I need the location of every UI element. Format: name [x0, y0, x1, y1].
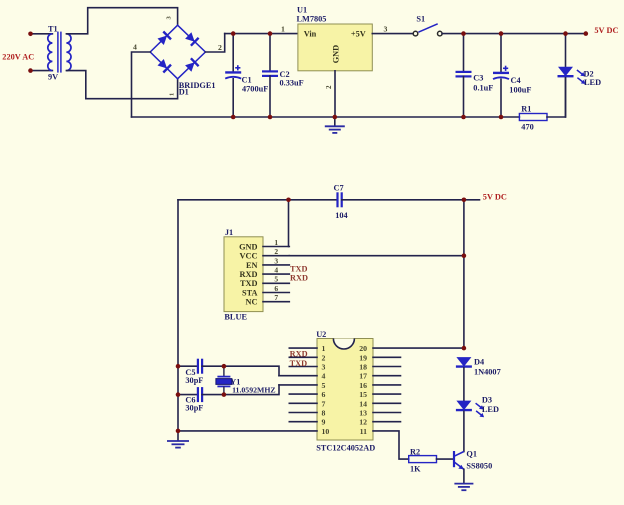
wire U2 pin 13 stub — [373, 412, 401, 414]
wire 5V vertical — [463, 200, 465, 348]
svg-text:BLUE: BLUE — [224, 312, 247, 321]
wire U2 pin 5 stub — [279, 384, 317, 386]
wire secondary top to bridge pin3 — [66, 8, 177, 34]
capacitor C3 — [456, 72, 472, 77]
wire U2 pin 2 stub — [289, 356, 317, 358]
wire left to C6 — [178, 394, 198, 396]
wire J1 pin 2 stub — [263, 255, 289, 257]
svg-text:16: 16 — [359, 381, 367, 390]
svg-text:J1: J1 — [225, 228, 233, 237]
svg-text:18: 18 — [359, 363, 367, 372]
LED D2 arrows — [577, 70, 586, 84]
svg-text:C4: C4 — [511, 76, 521, 85]
microcontroller U2 box — [317, 339, 373, 441]
wire left to C5 — [178, 365, 198, 367]
wire ground stem bottom-left — [177, 431, 179, 441]
svg-text:10: 10 — [322, 427, 330, 436]
svg-text:2: 2 — [322, 353, 326, 362]
svg-text:1: 1 — [274, 238, 278, 247]
wire C3 top stem — [463, 34, 465, 72]
wire U2 pin 11 to R2 — [373, 431, 409, 459]
svg-text:RXD: RXD — [240, 270, 258, 279]
wire 5V rail right of C7 — [342, 199, 480, 201]
svg-text:R2: R2 — [410, 447, 420, 456]
svg-text:VCC: VCC — [240, 252, 258, 261]
svg-text:19: 19 — [359, 353, 367, 362]
junction C4 bottom — [499, 115, 504, 120]
diode D4 — [456, 357, 472, 367]
svg-text:14: 14 — [359, 399, 367, 408]
LED D3 — [456, 401, 472, 411]
wire primary top lead — [31, 33, 53, 35]
wire J1 pin 1 stub — [263, 246, 289, 248]
wire bottom rail — [132, 116, 520, 118]
junction C1 top — [231, 31, 236, 36]
connector J1 box — [224, 237, 263, 312]
wire U2 pin 19 stub — [373, 356, 401, 358]
wire C2 bottom stem — [269, 76, 271, 117]
wire U2 pin 3 stub — [289, 366, 317, 368]
svg-text:NC: NC — [246, 298, 258, 307]
svg-text:GND: GND — [239, 242, 257, 251]
svg-text:6: 6 — [322, 390, 326, 399]
svg-text:4: 4 — [322, 372, 326, 381]
capacitor C2 — [262, 71, 278, 76]
switch S1 — [413, 24, 442, 36]
wire ground stem — [334, 117, 336, 126]
svg-text:U1: U1 — [297, 6, 307, 15]
svg-text:TXD: TXD — [240, 279, 258, 288]
wire secondary bottom to bridge pin1 — [66, 71, 177, 99]
svg-text:D3: D3 — [482, 396, 492, 405]
wire U2 pin 18 stub — [373, 366, 401, 368]
junction C4 top — [499, 31, 504, 36]
svg-text:7: 7 — [274, 293, 278, 302]
svg-text:TXD: TXD — [290, 265, 308, 274]
svg-text:D4: D4 — [474, 358, 484, 367]
wire C4 bottom stem — [500, 79, 502, 117]
svg-text:1: 1 — [322, 344, 326, 353]
junction C2 top — [268, 31, 273, 36]
wire S1 to 5V DC — [442, 33, 586, 35]
wire J1 pin 7 stub — [263, 301, 289, 303]
svg-text:U2: U2 — [316, 330, 326, 339]
svg-text:Vin: Vin — [304, 30, 317, 39]
junction D4 top — [462, 346, 467, 351]
svg-text:104: 104 — [335, 211, 347, 220]
svg-text:12: 12 — [359, 418, 367, 427]
ground bottom-left — [167, 441, 189, 448]
wire C4 top stem — [500, 34, 502, 72]
wire J1 pin 5 stub — [263, 282, 289, 284]
junction ground rail — [176, 429, 181, 434]
junction C6 left — [176, 392, 181, 397]
svg-text:GND: GND — [332, 45, 341, 63]
svg-text:+5V: +5V — [351, 30, 366, 39]
diode D1b top-right — [185, 32, 199, 46]
svg-text:4: 4 — [274, 266, 278, 275]
junction J1 pin1 rail — [286, 198, 291, 203]
node 5V DC terminal — [584, 31, 589, 36]
capacitor C6 — [198, 387, 202, 402]
wire U2 pin 7 stub — [289, 402, 317, 404]
svg-text:TXD: TXD — [290, 359, 308, 368]
resistor R2 — [409, 456, 437, 463]
wire primary bottom lead — [31, 70, 53, 72]
wire J1 pin 3 stub — [263, 264, 289, 266]
wire 5V rail left of C7 — [178, 199, 337, 201]
wire bridge pin4 down — [132, 52, 151, 117]
LED D3 arrows — [476, 403, 485, 417]
capacitor C7 — [338, 192, 342, 207]
wire left vertical — [177, 200, 179, 431]
node 220V AC terminal top — [28, 32, 33, 37]
junction D2 top — [563, 31, 568, 36]
junction C1 bottom — [231, 115, 236, 120]
diode D1a top-left — [158, 32, 172, 46]
wire C5 to U2 pin4 — [202, 366, 279, 376]
svg-text:4700uF: 4700uF — [242, 84, 268, 93]
LED D2 — [558, 67, 574, 77]
svg-text:5: 5 — [274, 275, 278, 284]
svg-text:1N4007: 1N4007 — [474, 368, 501, 377]
svg-text:STC12C4052AD: STC12C4052AD — [316, 444, 375, 453]
svg-text:C7: C7 — [334, 184, 344, 193]
junction C3 top — [461, 31, 466, 36]
junction VCC 5V — [462, 253, 467, 258]
junction Y1 top — [222, 364, 227, 369]
svg-text:2: 2 — [274, 247, 278, 256]
wire C2 top stem — [269, 34, 271, 72]
wire R2 to Q1 base — [437, 458, 455, 460]
svg-text:EN: EN — [246, 261, 258, 270]
svg-text:T1: T1 — [48, 24, 58, 33]
svg-text:4: 4 — [133, 42, 137, 51]
svg-text:1: 1 — [281, 25, 285, 34]
wire U2 pin 12 stub — [373, 421, 401, 423]
wire U2 pin 10 to ground rail — [178, 430, 317, 432]
capacitor C4 — [493, 66, 509, 79]
crystal Y1 — [216, 366, 232, 394]
wire C6 to U2 pin5 — [202, 385, 279, 395]
svg-text:LED: LED — [584, 78, 601, 87]
svg-text:9: 9 — [322, 418, 326, 427]
transistor Q1 — [454, 451, 464, 469]
svg-text:11.0592MHZ: 11.0592MHZ — [232, 385, 276, 394]
junction Y1 bottom — [222, 392, 227, 397]
wire U2 pin 1 stub — [289, 347, 317, 349]
junction U1 ground — [333, 115, 338, 120]
wire Q1 emitter to ground — [463, 469, 465, 483]
junction 5V vertical top — [462, 198, 467, 203]
wire R1 to D2 — [547, 78, 566, 117]
svg-text:D1: D1 — [179, 88, 189, 97]
svg-text:5: 5 — [322, 381, 326, 390]
wire U2 pin 14 stub — [373, 402, 401, 404]
svg-text:RXD: RXD — [290, 274, 308, 283]
svg-text:RXD: RXD — [290, 350, 308, 359]
wire U2 pin 17 stub — [373, 375, 401, 377]
svg-text:15: 15 — [359, 390, 367, 399]
wire U2 pin 8 stub — [289, 412, 317, 414]
wire U2 pin 15 stub — [373, 393, 401, 395]
wire U1 GND down — [334, 71, 336, 117]
svg-text:470: 470 — [521, 122, 533, 131]
wire J1 VCC to 5V — [289, 255, 464, 257]
svg-text:9V: 9V — [48, 72, 58, 81]
svg-text:LED: LED — [482, 405, 499, 414]
svg-text:S1: S1 — [416, 15, 425, 24]
wire C3 bottom stem — [463, 76, 465, 117]
wire D4 to D3 — [463, 368, 465, 401]
wire top rail to U1 — [225, 33, 298, 35]
bridge rectifier D1 — [150, 25, 205, 79]
svg-text:100uF: 100uF — [509, 85, 531, 94]
svg-text:8: 8 — [322, 409, 326, 418]
svg-text:3: 3 — [322, 363, 326, 372]
wire D2 bottom stem — [565, 78, 567, 117]
wire U2 pin 16 stub — [373, 384, 401, 386]
wire U2 pin 20 to 5V — [373, 347, 464, 349]
wire U2 pin 6 stub — [289, 393, 317, 395]
svg-text:30pF: 30pF — [185, 376, 203, 385]
svg-text:11: 11 — [360, 427, 367, 436]
svg-text:R1: R1 — [521, 105, 531, 114]
svg-text:17: 17 — [359, 372, 367, 381]
capacitor C5 — [198, 359, 202, 374]
svg-text:5V DC: 5V DC — [594, 26, 618, 35]
wire bridge pin2 to rail — [205, 34, 224, 52]
U2 notch — [333, 339, 354, 350]
svg-text:7: 7 — [322, 399, 326, 408]
wire J1 pin 6 stub — [263, 292, 289, 294]
wire C1 top stem — [232, 34, 234, 72]
wire C1 bottom stem — [232, 79, 234, 117]
svg-text:Q1: Q1 — [466, 449, 477, 458]
svg-text:3: 3 — [274, 256, 278, 265]
ground top circuit — [325, 126, 345, 133]
svg-text:LM7805: LM7805 — [297, 15, 327, 24]
svg-text:0.33uF: 0.33uF — [280, 79, 304, 88]
capacitor C1 — [225, 65, 241, 78]
svg-text:5V DC: 5V DC — [483, 192, 507, 201]
wire J1 pin1 vertical — [288, 200, 290, 247]
wire U2 pin 4 stub — [279, 375, 317, 377]
svg-text:2: 2 — [218, 43, 222, 52]
resistor R1 — [519, 114, 547, 121]
diode D1d bottom-right — [185, 58, 199, 72]
svg-text:C1: C1 — [242, 76, 252, 85]
svg-text:220V AC: 220V AC — [2, 52, 34, 61]
svg-text:C3: C3 — [473, 74, 483, 83]
svg-text:20: 20 — [359, 344, 367, 353]
wire D3 to Q1 collector — [463, 411, 465, 451]
svg-text:SS8050: SS8050 — [466, 462, 492, 471]
transformer T1 — [48, 32, 71, 73]
svg-text:3: 3 — [384, 25, 388, 34]
diode D1c bottom-left — [158, 59, 172, 73]
junction C2 bottom — [268, 115, 273, 120]
wire U2 pin 9 stub — [289, 421, 317, 423]
junction C3 bottom — [461, 115, 466, 120]
wire D2 top stem — [565, 34, 567, 67]
junction C5 left — [176, 364, 181, 369]
svg-text:2: 2 — [325, 85, 333, 89]
svg-text:13: 13 — [359, 409, 367, 418]
svg-text:1: 1 — [169, 93, 176, 96]
svg-text:30pF: 30pF — [185, 403, 203, 412]
node 220V AC terminal bottom — [28, 68, 33, 73]
ground Q1 — [454, 484, 473, 491]
wire U1 pin3 to S1 — [372, 33, 413, 35]
svg-text:1K: 1K — [410, 464, 421, 473]
svg-text:6: 6 — [274, 284, 278, 293]
svg-text:STA: STA — [242, 288, 258, 297]
op-amp U1 LM7805 box — [298, 24, 372, 71]
svg-text:0.1uF: 0.1uF — [473, 83, 493, 92]
wire J1 pin 4 stub — [263, 273, 289, 275]
